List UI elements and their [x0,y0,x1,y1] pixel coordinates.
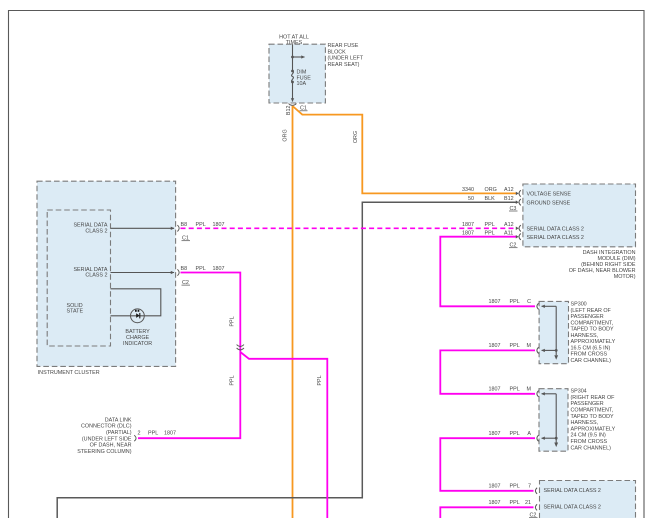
svg-text:CONNECTOR (DLC): CONNECTOR (DLC) [81,424,132,430]
svg-text:1807: 1807 [462,230,474,236]
solid state label [67,303,84,315]
svg-text:(PARTIAL): (PARTIAL) [106,430,132,436]
connector at module pin 21 [535,504,537,510]
svg-text:PPL: PPL [510,431,520,437]
svg-text:M: M [527,387,532,393]
connector C2 at DIM [509,225,521,248]
svg-text:CAR CHANNEL): CAR CHANNEL) [571,445,612,451]
svg-text:(UNDER LEFT: (UNDER LEFT [328,56,364,62]
connector C1 at cluster, pin B8 [177,222,224,242]
wire PPL from cluster C2 down to DLC [138,273,240,439]
connector at SP300 pin M [537,347,539,353]
svg-text:3340: 3340 [462,187,474,193]
svg-text:PASSENGER: PASSENGER [571,401,604,407]
svg-text:1807: 1807 [489,387,501,393]
svg-text:TAPED TO BODY: TAPED TO BODY [571,414,615,420]
wire ORG from fuse, vertical run to bottom [283,106,293,518]
svg-text:M: M [527,343,532,349]
wire ORG branch to DIM voltage sense [293,106,518,193]
battery charge indicator lamp [111,289,161,347]
wire BLK ground sense [57,202,517,518]
svg-text:FROM CROSS: FROM CROSS [571,352,608,358]
fuse F DIM FUSE 10A [291,44,311,101]
svg-text:COMPARTMENT,: COMPARTMENT, [571,408,614,414]
svg-text:ORG: ORG [353,131,359,143]
svg-text:HARNESS,: HARNESS, [571,420,599,426]
svg-text:REAR FUSE: REAR FUSE [328,43,359,49]
rear fuse block box [269,35,364,104]
connector at module pin 7 [535,488,537,494]
svg-text:A11: A11 [504,230,513,236]
svg-text:PPL: PPL [485,230,495,236]
svg-text:ORG: ORG [283,129,289,141]
svg-text:COMPARTMENT,: COMPARTMENT, [571,320,614,326]
svg-text:(RIGHT REAR OF: (RIGHT REAR OF [571,395,616,401]
svg-text:A: A [527,431,531,437]
connector at SP304 pin A [537,435,539,441]
svg-text:CAR CHANNEL): CAR CHANNEL) [571,358,612,364]
svg-text:(UNDER LEFT SIDE: (UNDER LEFT SIDE [82,436,132,442]
connector C2 at cluster, pin B8 [177,266,224,286]
splice SP300 internal bus [542,306,559,360]
svg-text:C2: C2 [530,513,537,518]
instrument cluster box [37,181,176,376]
wire PPL branch to bottom right [240,352,327,518]
svg-text:OF DASH, NEAR: OF DASH, NEAR [90,443,132,449]
svg-text:TIMES: TIMES [286,40,303,46]
connector C3 at DIM [509,190,521,212]
svg-text:STATE: STATE [67,309,84,315]
svg-text:B12: B12 [286,106,292,116]
svg-text:PPL: PPL [148,431,158,437]
svg-text:REAR SEAT): REAR SEAT) [328,62,360,68]
wire label 3340 ORG A12 [462,187,514,193]
svg-text:TAPED TO BODY: TAPED TO BODY [571,327,615,333]
wire label 1807 PPL M (SP304) [489,387,532,393]
svg-text:7: 7 [528,484,531,490]
svg-text:SP300: SP300 [571,302,587,308]
wire PPL serial data class 2 to DIM A11 [440,237,535,307]
svg-text:PPL: PPL [510,299,520,305]
svg-text:GROUND SENSE: GROUND SENSE [527,200,571,206]
wire label 1807 PPL 21 [489,500,532,506]
serial data class 2 module box (bottom right) [540,481,636,518]
svg-text:APPROXIMATELY: APPROXIMATELY [571,339,616,345]
svg-text:APPROXIMATELY: APPROXIMATELY [571,426,616,432]
serial data class 2 output 2 (cluster) [73,267,174,279]
svg-text:STEERING COLUMN): STEERING COLUMN) [77,449,131,455]
wire PPL SP304 A to serial data module pin 7 [440,438,535,491]
connector at SP300 pin C [537,303,539,309]
svg-text:PPL: PPL [510,500,520,506]
svg-text:C: C [527,299,531,305]
svg-text:A12: A12 [504,222,514,228]
svg-text:1807: 1807 [462,222,474,228]
svg-text:B12: B12 [504,196,514,202]
splice SP300 box [539,301,568,363]
svg-text:PPL: PPL [230,375,236,385]
DIM caption [569,250,636,280]
wire PPL SP300 M to SP304 M [440,350,535,393]
svg-text:MOTOR): MOTOR) [614,274,636,280]
svg-text:BLK: BLK [485,196,496,202]
svg-text:1807: 1807 [489,343,501,349]
wire PPL from bottom to module pin 21 [440,507,533,518]
wire label 1807 PPL A11 [462,230,513,236]
svg-text:PASSENGER: PASSENGER [571,314,604,320]
svg-text:PPL: PPL [196,222,206,228]
connector C2 at bottom module [529,513,538,518]
wire label 1807 PPL C [489,299,532,305]
svg-text:INSTRUMENT CLUSTER: INSTRUMENT CLUSTER [38,370,100,376]
wire label 1807 PPL A12 [462,222,514,228]
svg-text:PPL: PPL [230,316,236,326]
svg-text:PPL: PPL [317,375,323,385]
svg-text:1807: 1807 [489,484,501,490]
svg-text:1807: 1807 [489,299,501,305]
svg-text:VOLTAGE SENSE: VOLTAGE SENSE [527,192,572,198]
svg-text:SERIAL DATA CLASS 2: SERIAL DATA CLASS 2 [544,488,601,494]
svg-text:CLASS 2: CLASS 2 [85,229,107,235]
svg-text:PPL: PPL [485,222,495,228]
svg-text:ORG: ORG [485,187,497,193]
wire label 1807 PPL M (SP300) [489,343,532,349]
splice SP304 internal bus [542,394,559,447]
data link connector DLC [77,417,176,455]
serial data class 2 output 1 (cluster) [73,223,174,235]
svg-text:1807: 1807 [489,431,501,437]
inline connector on PPL wire [237,345,244,350]
svg-text:SERIAL DATA CLASS 2: SERIAL DATA CLASS 2 [527,235,584,241]
svg-text:(LEFT REAR OF: (LEFT REAR OF [571,308,612,314]
svg-text:SERIAL DATA CLASS 2: SERIAL DATA CLASS 2 [544,505,601,511]
svg-text:FROM CROSS: FROM CROSS [571,439,608,445]
svg-text:2: 2 [138,431,141,437]
connector C1 at fuse block, pin B12 [286,104,308,115]
svg-text:B8: B8 [181,266,188,272]
svg-text:1807: 1807 [213,222,225,228]
svg-text:1807: 1807 [213,266,225,272]
svg-text:PPL: PPL [510,343,520,349]
svg-text:10A: 10A [297,81,307,87]
svg-text:A12: A12 [504,187,514,193]
svg-text:BLOCK: BLOCK [328,49,347,55]
svg-text:HARNESS,: HARNESS, [571,333,599,339]
svg-text:INDICATOR: INDICATOR [123,341,152,347]
splice SP304 box [539,389,568,452]
svg-text:PPL: PPL [510,387,520,393]
svg-text:1807: 1807 [164,431,176,437]
svg-text:24 CM (9.5 IN): 24 CM (9.5 IN) [571,433,607,439]
svg-text:16.5 CM (6.5 IN): 16.5 CM (6.5 IN) [571,345,611,351]
dash integration module DIM box [523,184,636,247]
connector at SP304 pin M [537,391,539,397]
wire label 50 BLK B12 [468,196,514,202]
svg-text:DATA LINK: DATA LINK [105,417,132,423]
svg-text:PPL: PPL [196,266,206,272]
svg-text:1807: 1807 [489,500,501,506]
SP300 caption [571,302,616,364]
svg-text:PPL: PPL [510,484,520,490]
svg-text:CLASS 2: CLASS 2 [85,273,107,279]
svg-text:B8: B8 [181,222,188,228]
svg-text:21: 21 [525,500,531,506]
wire label 1807 PPL 7 [489,484,532,490]
wire PPL serial data class 2 dashed (C1 cluster to DIM A12) [181,227,518,229]
svg-text:SP304: SP304 [571,389,587,395]
svg-text:50: 50 [468,196,474,202]
wire label 1807 PPL A [489,431,532,437]
svg-text:SERIAL DATA CLASS 2: SERIAL DATA CLASS 2 [527,226,584,232]
SP304 caption [571,389,616,452]
